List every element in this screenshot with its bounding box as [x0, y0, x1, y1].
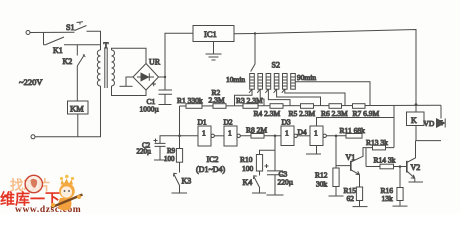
wire contact3 to junction R4-R5 [268, 89, 290, 106]
svg-text:~220V: ~220V [19, 77, 43, 87]
wire RC node to D1 [180, 135, 199, 137]
ground V2 [409, 181, 424, 183]
resistor R15 [344, 186, 363, 203]
wire right node vertical [393, 105, 395, 147]
wire secondary top to bridge [112, 48, 147, 63]
wire IC1 ground [213, 42, 215, 54]
wire D3 to D4 [297, 127, 310, 136]
resistor R2 [209, 88, 227, 108]
contactor coil KM [68, 101, 89, 114]
resistor R1 [177, 96, 203, 108]
label IC2 [196, 155, 226, 174]
ground R16 [393, 205, 408, 207]
node R8 output [274, 135, 277, 138]
wire +V riser to IC1 [165, 33, 193, 89]
node relay top [415, 103, 418, 106]
transistor V1 [346, 153, 356, 171]
wire resistor chain [180, 104, 442, 107]
svg-text:220µ: 220µ [137, 148, 152, 156]
svg-text:K: K [411, 116, 417, 125]
svg-text:R5 2.3M: R5 2.3M [289, 109, 316, 118]
svg-text:VD: VD [424, 119, 435, 128]
switch S1 [66, 22, 87, 32]
svg-text:D1: D1 [198, 118, 207, 127]
svg-text:R6 2.3M: R6 2.3M [321, 109, 348, 118]
svg-text:R10: R10 [240, 155, 253, 164]
watermark mascot [51, 175, 83, 211]
wire V1 base [336, 136, 351, 166]
resistor R13 [366, 138, 394, 150]
ground D4 [306, 153, 321, 155]
resistor R3 [236, 96, 263, 108]
wire D4 ground [316, 146, 318, 154]
ground R15 [353, 206, 368, 208]
switch S2 contact 5 [282, 74, 287, 93]
wire KM to bottom rail [77, 114, 79, 137]
svg-text:1: 1 [285, 129, 289, 138]
ground IC1 [206, 54, 222, 60]
svg-text:K3: K3 [182, 177, 192, 186]
ground K3 [172, 192, 188, 194]
inverter D4 [310, 126, 326, 146]
wire D4 top feedback [317, 118, 395, 127]
svg-text:R12: R12 [315, 171, 328, 180]
node V2 base [399, 165, 402, 168]
wire S1 to transformer [87, 31, 101, 44]
svg-text:2.3M: 2.3M [209, 95, 225, 104]
svg-text:R9: R9 [167, 147, 176, 155]
svg-text:K2: K2 [63, 57, 73, 66]
svg-text:IC1: IC1 [204, 29, 217, 39]
wire RC node to C2 [160, 136, 180, 143]
svg-text:100: 100 [242, 164, 254, 173]
wire V2 base [400, 166, 407, 168]
svg-text:220µ: 220µ [278, 178, 294, 187]
svg-text:D3: D3 [282, 118, 291, 127]
svg-text:S1: S1 [66, 23, 74, 32]
svg-text:R8 2M: R8 2M [246, 125, 267, 134]
node S2 wiper tap [254, 32, 256, 34]
svg-text:1: 1 [202, 129, 206, 138]
wire S2 wiper [251, 34, 255, 72]
resistor R8 [240, 125, 281, 138]
wire V2 emitter [407, 171, 415, 182]
resistor R6 [321, 104, 348, 119]
svg-text:1000µ: 1000µ [140, 105, 160, 114]
svg-text:100: 100 [164, 155, 175, 163]
resistor R16 [381, 167, 404, 204]
wire contact1 to junction R2-R3 [235, 89, 253, 106]
wire R15 ground [359, 201, 361, 207]
svg-text:13k: 13k [382, 194, 394, 203]
svg-text:S2: S2 [272, 61, 280, 70]
wire contact5 to junction R6-R7 [285, 89, 345, 106]
capacitor C2 [137, 139, 166, 160]
label ~220V [19, 77, 43, 87]
regulator IC1 [193, 26, 234, 42]
wire K4 to ground [259, 188, 261, 193]
svg-text:D4: D4 [298, 127, 307, 136]
inverter D3 [281, 118, 297, 146]
switch S2 contact 6 [291, 74, 296, 90]
svg-text:UR: UR [149, 58, 161, 67]
resistor R5 [289, 104, 316, 118]
transformer T primary [97, 41, 108, 86]
switch K1 [44, 37, 101, 55]
label 10min [226, 75, 245, 84]
wire relay loop right [440, 105, 442, 118]
wire K3 to ground [179, 186, 181, 193]
bridge rectifier UR [133, 58, 161, 91]
wire mains bottom [35, 86, 101, 137]
svg-text:R1 330k: R1 330k [177, 96, 203, 105]
wire R16 ground [399, 201, 401, 206]
wire mains top [30, 31, 75, 33]
ground R12 [329, 195, 344, 197]
wire D4 output [326, 135, 346, 137]
terminal top-left [26, 31, 30, 35]
resistor R14 [366, 155, 400, 169]
relay coil K [407, 105, 425, 141]
transformer T secondary [112, 50, 115, 86]
resistor R10 [240, 155, 263, 174]
svg-text:R4 2.3M: R4 2.3M [254, 109, 281, 118]
wire K2 to KM [76, 66, 78, 101]
svg-text:(D1~D4): (D1~D4) [196, 165, 226, 174]
svg-text:90min: 90min [297, 73, 316, 82]
ground C1 [159, 104, 172, 106]
svg-text:1: 1 [314, 129, 318, 138]
inverter D2 [224, 118, 241, 147]
wire D1 to D2 [214, 135, 224, 137]
wire contact4 to junction R5-R6 [277, 89, 321, 106]
ground C3 [267, 194, 284, 196]
switch K3 [174, 162, 192, 186]
svg-text:KM: KM [70, 104, 84, 114]
svg-text:K4: K4 [243, 178, 253, 187]
resistor R4 [254, 104, 284, 118]
node RC input [178, 135, 181, 138]
transistor V2 [407, 161, 420, 173]
wire V1 emitter [351, 170, 360, 187]
capacitor C3 [265, 150, 294, 194]
switch K2 [63, 55, 86, 67]
svg-text:www.dzsc.com: www.dzsc.com [15, 205, 81, 214]
wire +V top rail [234, 30, 416, 104]
svg-text:62: 62 [347, 194, 355, 203]
switch S2 contact 3 [265, 74, 270, 93]
node bridge output [164, 76, 166, 78]
switch S2 contact 2 [257, 74, 262, 93]
wire K2 branch [76, 45, 78, 56]
node V1 base tap [335, 135, 338, 138]
wire chain left end down to RC node [179, 106, 181, 136]
svg-text:10min: 10min [226, 75, 245, 84]
wire V2 collector [407, 141, 416, 163]
label S2 [272, 61, 280, 70]
wire secondary bottom to bridge [112, 86, 147, 96]
switch S2 contact 1 [249, 74, 254, 93]
ground C2 [154, 159, 166, 161]
wire R12 to ground [335, 187, 337, 196]
svg-text:T: T [104, 41, 109, 50]
svg-text:V1: V1 [346, 153, 356, 162]
wire relay loop bottom [416, 140, 442, 142]
diode VD [424, 119, 446, 129]
svg-text:V2: V2 [411, 163, 421, 172]
resistor R12 [315, 166, 339, 189]
svg-text:K1: K1 [53, 46, 63, 55]
switch S2 contact 4 [274, 74, 279, 93]
watermark dzsc logo [0, 175, 81, 215]
wire K1 branch down [43, 32, 45, 44]
wire R13 to R14 riser [365, 148, 367, 167]
ground bridge [120, 85, 133, 87]
svg-text:1: 1 [228, 129, 232, 138]
wire R8 node down [274, 136, 276, 150]
wire contact6 90min to chain end [295, 82, 370, 106]
resistor R9 [164, 136, 183, 163]
capacitor C1 [140, 82, 173, 114]
wire V1 collector [351, 148, 366, 162]
wire bridge output [159, 76, 166, 78]
svg-text:R14 3k: R14 3k [374, 155, 396, 164]
svg-text:R7 6.9M: R7 6.9M [353, 109, 380, 118]
label 90min [297, 73, 316, 82]
wire to R10 [260, 150, 276, 154]
inverter D1 [198, 118, 215, 147]
svg-text:D2: D2 [224, 118, 233, 127]
switch K4 [243, 171, 260, 188]
wire contact2 to junction R3-R4 [260, 89, 264, 106]
transformer core [105, 48, 107, 88]
svg-text:IC2: IC2 [207, 155, 219, 164]
wire bridge left to ground [126, 77, 133, 86]
terminal bottom-left [31, 135, 35, 139]
svg-text:30k: 30k [316, 180, 328, 189]
svg-text:R13 3k: R13 3k [366, 138, 388, 147]
svg-text:R11 68k: R11 68k [340, 126, 366, 135]
resistor R7 [353, 104, 380, 119]
resistor R11 [340, 126, 366, 138]
svg-text:R3 2.3M: R3 2.3M [236, 96, 263, 105]
ground K4 [252, 192, 266, 194]
